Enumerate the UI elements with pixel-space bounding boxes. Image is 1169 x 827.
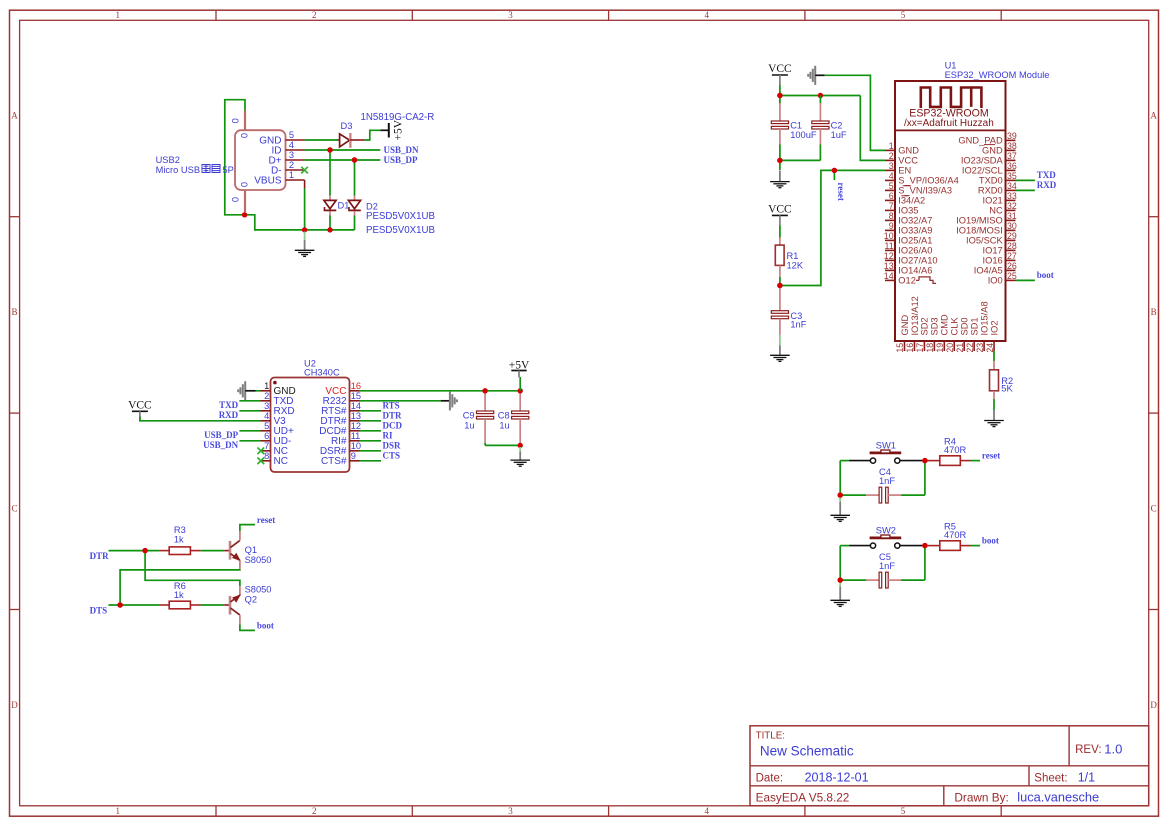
- svg-text:+5V: +5V: [392, 119, 404, 140]
- svg-text:12: 12: [351, 421, 361, 431]
- junction C1 bottom redraw: [777, 158, 782, 163]
- wire GND pin5 to D3: [305, 139, 337, 141]
- svg-text:12K: 12K: [787, 260, 804, 270]
- svg-text:3: 3: [889, 161, 894, 171]
- junction C1 bottom: [777, 158, 782, 163]
- diode D2 PESD5V0X1UB: [354, 160, 356, 196]
- svg-text:36: 36: [1007, 161, 1017, 171]
- junction on pin4 wire: [327, 147, 332, 152]
- U1 pin 20 CLK: [953, 341, 955, 351]
- svg-text:9: 9: [889, 221, 894, 231]
- transistor Q1 S8050: [229, 541, 232, 560]
- svg-text:CH340C: CH340C: [304, 368, 340, 378]
- svg-text:IO2: IO2: [989, 321, 999, 336]
- svg-text:5: 5: [901, 10, 906, 20]
- svg-text:4: 4: [264, 411, 269, 421]
- U1 pin 7 IO35: [885, 209, 895, 211]
- ground below USB: [304, 232, 306, 241]
- wire VCC rail: [780, 95, 860, 97]
- U2 pin 5 UD+: [261, 430, 271, 432]
- svg-text:1: 1: [116, 806, 121, 816]
- svg-text:27: 27: [1007, 251, 1017, 261]
- switch SW1: [849, 460, 870, 462]
- switch SW2: [849, 545, 870, 547]
- wire U1 IO0 net boot: [1016, 279, 1035, 281]
- junction at mounting stub: [242, 212, 247, 217]
- junction D1/bottom wire: [327, 227, 332, 232]
- ground flag (rotated) near U1: [814, 66, 816, 85]
- wire D+ pin3 net USB_DP: [305, 159, 381, 161]
- svg-text:14: 14: [351, 401, 361, 411]
- svg-text:Q1: Q1: [245, 545, 257, 555]
- U1 pin 6 I34/A2: [885, 199, 895, 201]
- svg-text:IO22/SCL: IO22/SCL: [962, 166, 1003, 176]
- svg-text:S_VN/I39/A3: S_VN/I39/A3: [898, 186, 952, 196]
- U1 pin 4 S_VP/IO36/A4: [885, 179, 895, 181]
- U2 pin 6 UD-: [261, 440, 271, 442]
- svg-text:reset: reset: [836, 183, 846, 201]
- wire R5 to net: [971, 545, 981, 547]
- U1 pin 11 IO26/A0: [885, 249, 895, 251]
- USB2 pin 5 GND: [286, 139, 305, 141]
- svg-text:33: 33: [1007, 191, 1017, 201]
- svg-text:13: 13: [351, 411, 361, 421]
- svg-text:17: 17: [915, 343, 925, 353]
- svg-text:VBUS: VBUS: [254, 175, 282, 186]
- svg-text:26: 26: [1007, 261, 1017, 271]
- svg-text:3: 3: [508, 806, 513, 816]
- svg-text:C: C: [1151, 503, 1157, 513]
- ground below SW2: [839, 582, 841, 587]
- svg-text:1: 1: [116, 10, 121, 20]
- wire U2 VCC to +5V rail: [360, 390, 521, 392]
- U2 pin 15 R232: [350, 400, 360, 402]
- connector USB2 body: [235, 130, 286, 190]
- svg-text:2: 2: [889, 151, 894, 161]
- wire U2 pin 14 net RTS: [360, 410, 382, 412]
- U1 pin 18 SD3: [933, 341, 935, 351]
- wire U2 pin 13 net DTR: [360, 420, 382, 422]
- svg-text:11: 11: [884, 241, 893, 251]
- wire U2 TXD stub: [239, 400, 260, 402]
- wire C1-C2 bottom: [780, 159, 821, 161]
- junction VCC/C2: [818, 93, 823, 98]
- junction C1 top redraw: [777, 93, 782, 98]
- svg-text:34: 34: [1007, 181, 1017, 191]
- USB2 pin 3 D+: [286, 159, 305, 161]
- U1 pin 25 IO0: [1006, 279, 1016, 281]
- U2 pin 13 DTR#: [350, 420, 360, 422]
- ground below SW1: [839, 497, 841, 502]
- connector USB2 mounting pin 0 (bottom): [244, 190, 246, 212]
- USB2 pin 2 D-: [286, 169, 305, 171]
- U1 pin 15 GND: [904, 341, 906, 351]
- svg-text:SD2: SD2: [920, 317, 930, 335]
- svg-text:A: A: [11, 111, 18, 121]
- svg-text:IO14/A6: IO14/A6: [898, 266, 932, 276]
- U2 pin 14 RTS#: [350, 410, 360, 412]
- svg-text:Micro USB: Micro USB: [156, 165, 200, 175]
- svg-text:luca.vanesche: luca.vanesche: [1017, 789, 1099, 804]
- wire U2 RXD stub: [239, 410, 260, 412]
- wire VCC rail to U1 VCC pin2: [860, 96, 885, 161]
- svg-text:S_VP/IO36/A4: S_VP/IO36/A4: [898, 176, 958, 186]
- svg-text:TITLE:: TITLE:: [756, 731, 785, 742]
- svg-text:470R: 470R: [944, 445, 967, 455]
- ground below R2: [993, 410, 995, 420]
- capacitor C4 1nF: [840, 494, 866, 496]
- junction DTR: [142, 548, 147, 553]
- U2 pin 9 CTS#: [350, 460, 360, 462]
- svg-text:SW2: SW2: [876, 526, 896, 536]
- title block: [750, 726, 1149, 806]
- wire R3 to Q1 base: [201, 550, 225, 552]
- svg-text:1nF: 1nF: [879, 561, 895, 571]
- junction SW2 right: [922, 543, 927, 548]
- U1 pin5 overbar: [903, 185, 911, 187]
- svg-text:22: 22: [965, 343, 975, 353]
- svg-text:0: 0: [239, 133, 249, 138]
- svg-text:19: 19: [935, 343, 945, 353]
- svg-text:IO23/SDA: IO23/SDA: [961, 156, 1004, 166]
- svg-text:IO15/A8: IO15/A8: [979, 301, 989, 335]
- svg-text:GND: GND: [898, 146, 919, 156]
- USB2 pin 4 ID: [286, 149, 305, 151]
- wire U2 pin 10 net DSR: [360, 450, 382, 452]
- wire SW1 left vertical: [839, 461, 841, 496]
- svg-text:1u: 1u: [499, 421, 509, 431]
- U2 pin 4 V3: [261, 420, 271, 422]
- junction pin3 wire redraw: [352, 157, 357, 162]
- svg-text:CMD: CMD: [940, 314, 950, 335]
- svg-text:USB_DN: USB_DN: [384, 145, 420, 155]
- U2 pin 8 NC: [261, 460, 271, 462]
- svg-text:0: 0: [231, 118, 241, 123]
- svg-text:1: 1: [889, 141, 894, 151]
- U1 pin 31 IO19/MISO: [1006, 219, 1016, 221]
- svg-text:VCC: VCC: [768, 63, 792, 75]
- svg-text:0: 0: [231, 197, 241, 202]
- U1 pin 17 SD2: [923, 341, 925, 351]
- svg-text:Drawn By:: Drawn By:: [954, 790, 1008, 804]
- svg-text:I34/A2: I34/A2: [898, 196, 925, 206]
- svg-text:VCC: VCC: [128, 399, 152, 411]
- junction C4 left: [838, 492, 843, 497]
- U1 pin 13 IO14/A6: [885, 269, 895, 271]
- svg-text:16: 16: [905, 343, 915, 353]
- ground flag at R232: [449, 391, 451, 410]
- svg-text:8: 8: [889, 211, 894, 221]
- junction pin4 wire redraw: [327, 147, 332, 152]
- U1 pin 14 O12: [885, 279, 895, 281]
- svg-text:EasyEDA V5.8.22: EasyEDA V5.8.22: [756, 790, 850, 804]
- svg-text:1nF: 1nF: [790, 320, 806, 330]
- diode D3 1N5819G-CA2-R: [337, 139, 342, 141]
- wire R6 to Q2 base: [201, 604, 225, 606]
- svg-text:R1: R1: [787, 251, 799, 261]
- svg-text:EN: EN: [898, 166, 911, 176]
- wire reset net to U1 EN pin3: [780, 170, 885, 285]
- svg-text:4: 4: [889, 171, 894, 181]
- U1 pin 19 CMD: [943, 341, 945, 351]
- U1 pin 1 GND: [885, 149, 895, 151]
- U2 pin 12 DCD#: [350, 430, 360, 432]
- svg-text:IO26/A0: IO26/A0: [898, 246, 932, 256]
- U1 pin 33 IO21: [1006, 199, 1016, 201]
- svg-text:IO27/A10: IO27/A10: [898, 256, 937, 266]
- svg-text:IO5/SCK: IO5/SCK: [966, 236, 1003, 246]
- junction on pin3 wire: [352, 157, 357, 162]
- svg-text:470R: 470R: [944, 530, 967, 540]
- junction C5 left: [838, 577, 843, 582]
- junction SW1 right redraw: [922, 458, 927, 463]
- junction DTS redraw: [117, 602, 122, 607]
- resistor R4 470R: [925, 460, 940, 462]
- svg-text:2: 2: [312, 806, 317, 816]
- junction VBUS/bottom wire: [302, 227, 307, 232]
- junction SW2 right redraw: [922, 543, 927, 548]
- svg-text:DCD: DCD: [383, 420, 403, 430]
- junction R1/C3 redraw: [777, 283, 782, 288]
- svg-text:IO0: IO0: [988, 276, 1003, 286]
- svg-text:TXD0: TXD0: [979, 176, 1003, 186]
- wire U2 UD+ stub: [239, 430, 260, 432]
- junction VCC/C1: [777, 93, 782, 98]
- svg-text:D: D: [1150, 700, 1157, 710]
- svg-text:30: 30: [1007, 221, 1017, 231]
- svg-text:+5V: +5V: [509, 359, 530, 371]
- transistor Q2 S8050: [229, 596, 232, 615]
- ground below C8: [519, 447, 521, 452]
- svg-text:DTS: DTS: [90, 606, 108, 616]
- junction DTR redraw: [142, 548, 147, 553]
- svg-text:IO13/A12: IO13/A12: [910, 296, 920, 335]
- U2 pin 3 RXD: [261, 410, 271, 412]
- svg-text:/xx=Adafruit Huzzah: /xx=Adafruit Huzzah: [904, 118, 994, 129]
- svg-text:boot: boot: [982, 536, 999, 546]
- svg-text:38: 38: [1007, 141, 1017, 151]
- no-connect X pin8: [257, 458, 264, 465]
- svg-text:VCC: VCC: [898, 156, 918, 166]
- U2 pin 7 NC: [261, 450, 271, 452]
- svg-text:IO18/MOSI: IO18/MOSI: [956, 226, 1003, 236]
- wire DTR node to Q2 emitter: [145, 551, 240, 587]
- capacitor C8: [519, 393, 521, 412]
- svg-text:Sheet:: Sheet:: [1034, 772, 1067, 784]
- svg-text:DTR: DTR: [383, 410, 403, 420]
- svg-text:RXD: RXD: [1037, 180, 1057, 190]
- U1 pin 29 IO5/SCK: [1006, 239, 1016, 241]
- svg-text:GND_PAD: GND_PAD: [958, 136, 1003, 146]
- svg-text:boot: boot: [1037, 270, 1054, 280]
- U1 pin 37 IO23/SDA: [1006, 159, 1016, 161]
- svg-text:1: 1: [289, 170, 294, 180]
- svg-text:13: 13: [884, 261, 894, 271]
- svg-text:1u: 1u: [464, 421, 474, 431]
- U2 pin 1 GND: [261, 390, 271, 392]
- svg-text:SD1: SD1: [969, 317, 979, 335]
- resistor R2 5K: [993, 361, 995, 370]
- U2 pin 11 RI#: [350, 440, 360, 442]
- svg-text:1nF: 1nF: [879, 476, 895, 486]
- svg-text:1k: 1k: [174, 534, 184, 544]
- svg-text:New Schematic: New Schematic: [760, 743, 854, 758]
- svg-text:USB2: USB2: [156, 155, 180, 165]
- resistor R5 470R: [925, 545, 940, 547]
- svg-text:5: 5: [264, 421, 269, 431]
- resistor R6 1k: [159, 604, 169, 606]
- junction reset stub: [832, 168, 837, 173]
- resistor R3 1k: [159, 550, 169, 552]
- U1 pin 30 IO18/MOSI: [1006, 229, 1016, 231]
- svg-text:NC: NC: [274, 456, 288, 467]
- svg-text:CLK: CLK: [950, 317, 960, 336]
- U1 pin 2 VCC: [885, 159, 895, 161]
- capacitor C5 1nF: [840, 579, 866, 581]
- svg-text:C9: C9: [463, 411, 475, 421]
- svg-text:D: D: [11, 700, 18, 710]
- svg-text:29: 29: [1007, 231, 1017, 241]
- svg-text:11: 11: [351, 431, 361, 441]
- svg-text:S8050: S8050: [245, 555, 272, 565]
- svg-text:RXD: RXD: [219, 410, 239, 420]
- U1 pin 36 IO22/SCL: [1006, 169, 1016, 171]
- svg-text:37: 37: [1007, 151, 1017, 161]
- U1 antenna meander: [921, 88, 971, 109]
- wire C9/C8 bottom: [485, 444, 520, 446]
- svg-text:9: 9: [351, 451, 356, 461]
- svg-text:3: 3: [264, 401, 269, 411]
- svg-text:TXD: TXD: [219, 400, 239, 410]
- svg-text:B: B: [1151, 307, 1157, 317]
- U2 pin 16 VCC: [350, 390, 360, 392]
- svg-text:2: 2: [289, 160, 294, 170]
- wire U1 TXD0 net TXD: [1016, 179, 1035, 181]
- svg-text:10: 10: [884, 231, 894, 241]
- wire Q2 collector to boot: [240, 624, 255, 630]
- svg-text:1uF: 1uF: [831, 130, 847, 140]
- svg-text:D3: D3: [341, 121, 353, 131]
- svg-text:28: 28: [1007, 241, 1017, 251]
- svg-text:C: C: [11, 503, 17, 513]
- U1 pin 27 IO16: [1006, 259, 1016, 261]
- svg-text:6: 6: [264, 431, 269, 441]
- svg-text:2: 2: [264, 391, 269, 401]
- svg-text:1k: 1k: [174, 590, 184, 600]
- svg-text:RXD0: RXD0: [978, 186, 1003, 196]
- svg-text:6: 6: [889, 191, 894, 201]
- U1 pin 24 IO2: [993, 341, 995, 351]
- capacitor C3 1nF: [779, 288, 781, 311]
- no-connect X pin7: [257, 448, 264, 455]
- U1 pin 38 GND: [1006, 149, 1016, 151]
- svg-text:B: B: [11, 307, 17, 317]
- svg-text:RI: RI: [383, 430, 393, 440]
- ground below C3: [779, 346, 781, 355]
- svg-text:USB_DP: USB_DP: [384, 155, 419, 165]
- power flag +5V (rotated): [388, 123, 390, 138]
- connector USB2 mounting pin 0 (top): [244, 111, 246, 131]
- U1 pin6 overbar: [901, 195, 908, 197]
- junction DTS: [117, 602, 122, 607]
- U2 pin 2 TXD: [261, 400, 271, 402]
- svg-text:CTS: CTS: [383, 450, 401, 460]
- svg-text:ESP32_WROOM Module: ESP32_WROOM Module: [945, 70, 1050, 80]
- resistor R1 12K: [779, 238, 781, 246]
- U2 pin1 marker dot: [273, 381, 277, 385]
- wire U2 UD- stub: [239, 440, 260, 442]
- wire flag to U1 GND pin1: [825, 75, 885, 150]
- svg-text:4: 4: [705, 10, 710, 20]
- svg-text:IO4/A5: IO4/A5: [974, 266, 1003, 276]
- U1 pin 22 SD1: [973, 341, 975, 351]
- svg-text:REV:: REV:: [1075, 744, 1101, 756]
- diode D1 PESD5V0X1UB: [329, 150, 331, 196]
- wire U2 R232 to flag: [360, 400, 441, 402]
- svg-text:5K: 5K: [1001, 384, 1013, 394]
- wire D3 to +5V: [365, 130, 381, 140]
- svg-text:14: 14: [884, 271, 894, 281]
- svg-text:DSR: DSR: [383, 440, 402, 450]
- svg-text:PESD5V0X1UB: PESD5V0X1UB: [366, 211, 435, 222]
- svg-text:DTR: DTR: [90, 551, 110, 561]
- junction C4 left redraw: [838, 492, 843, 497]
- junction R1/C3/reset: [777, 283, 782, 288]
- wire Q1 collector to reset: [240, 525, 255, 531]
- capacitor C1 100uF: [779, 96, 781, 105]
- svg-text:21: 21: [955, 343, 965, 353]
- svg-text:4: 4: [705, 806, 710, 816]
- svg-text:39: 39: [1007, 131, 1017, 141]
- svg-text:S8050: S8050: [245, 585, 272, 595]
- U2 pin 10 DSR#: [350, 450, 360, 452]
- svg-text:1.0: 1.0: [1104, 742, 1122, 757]
- U1 pin 10 IO25/A1: [885, 239, 895, 241]
- svg-text:15: 15: [351, 391, 361, 401]
- svg-text:32: 32: [1007, 201, 1017, 211]
- wire U1 RXD0 net RXD: [1016, 189, 1035, 191]
- svg-text:Q2: Q2: [245, 594, 257, 604]
- wire U1 IO2 pin24 down: [993, 351, 995, 361]
- svg-text:35: 35: [1007, 171, 1017, 181]
- U1 pin 9 IO33/A9: [885, 229, 895, 231]
- svg-text:18: 18: [925, 343, 935, 353]
- svg-text:VCC: VCC: [768, 203, 792, 215]
- svg-text:USB_DP: USB_DP: [204, 430, 239, 440]
- junction SW1 right: [922, 458, 927, 463]
- svg-text:SW1: SW1: [876, 441, 896, 451]
- svg-text:reset: reset: [257, 515, 275, 525]
- ground flag at U2 pin1: [244, 381, 246, 400]
- U1 pin 35 TXD0: [1006, 179, 1016, 181]
- U1 pin 3 EN: [885, 169, 895, 171]
- wire U2 pin 9 net CTS: [360, 460, 382, 462]
- U1 pin 21 SD0: [963, 341, 965, 351]
- svg-text:IO16: IO16: [983, 256, 1003, 266]
- svg-text:IO19/MISO: IO19/MISO: [956, 216, 1003, 226]
- wire U2 pin 11 net RI: [360, 440, 382, 442]
- USB2 pin 1 VBUS: [286, 179, 305, 181]
- wire U2 pin 12 net DCD: [360, 430, 382, 432]
- U1 pin 34 RXD0: [1006, 189, 1016, 191]
- svg-text:boot: boot: [257, 621, 274, 631]
- svg-text:10: 10: [351, 441, 361, 451]
- U1 pin 8 IO32/A7: [885, 219, 895, 221]
- U1 pin 12 IO27/A10: [885, 259, 895, 261]
- svg-text:IO35: IO35: [898, 206, 918, 216]
- svg-text:16: 16: [351, 381, 361, 391]
- junction C8 top: [518, 388, 523, 393]
